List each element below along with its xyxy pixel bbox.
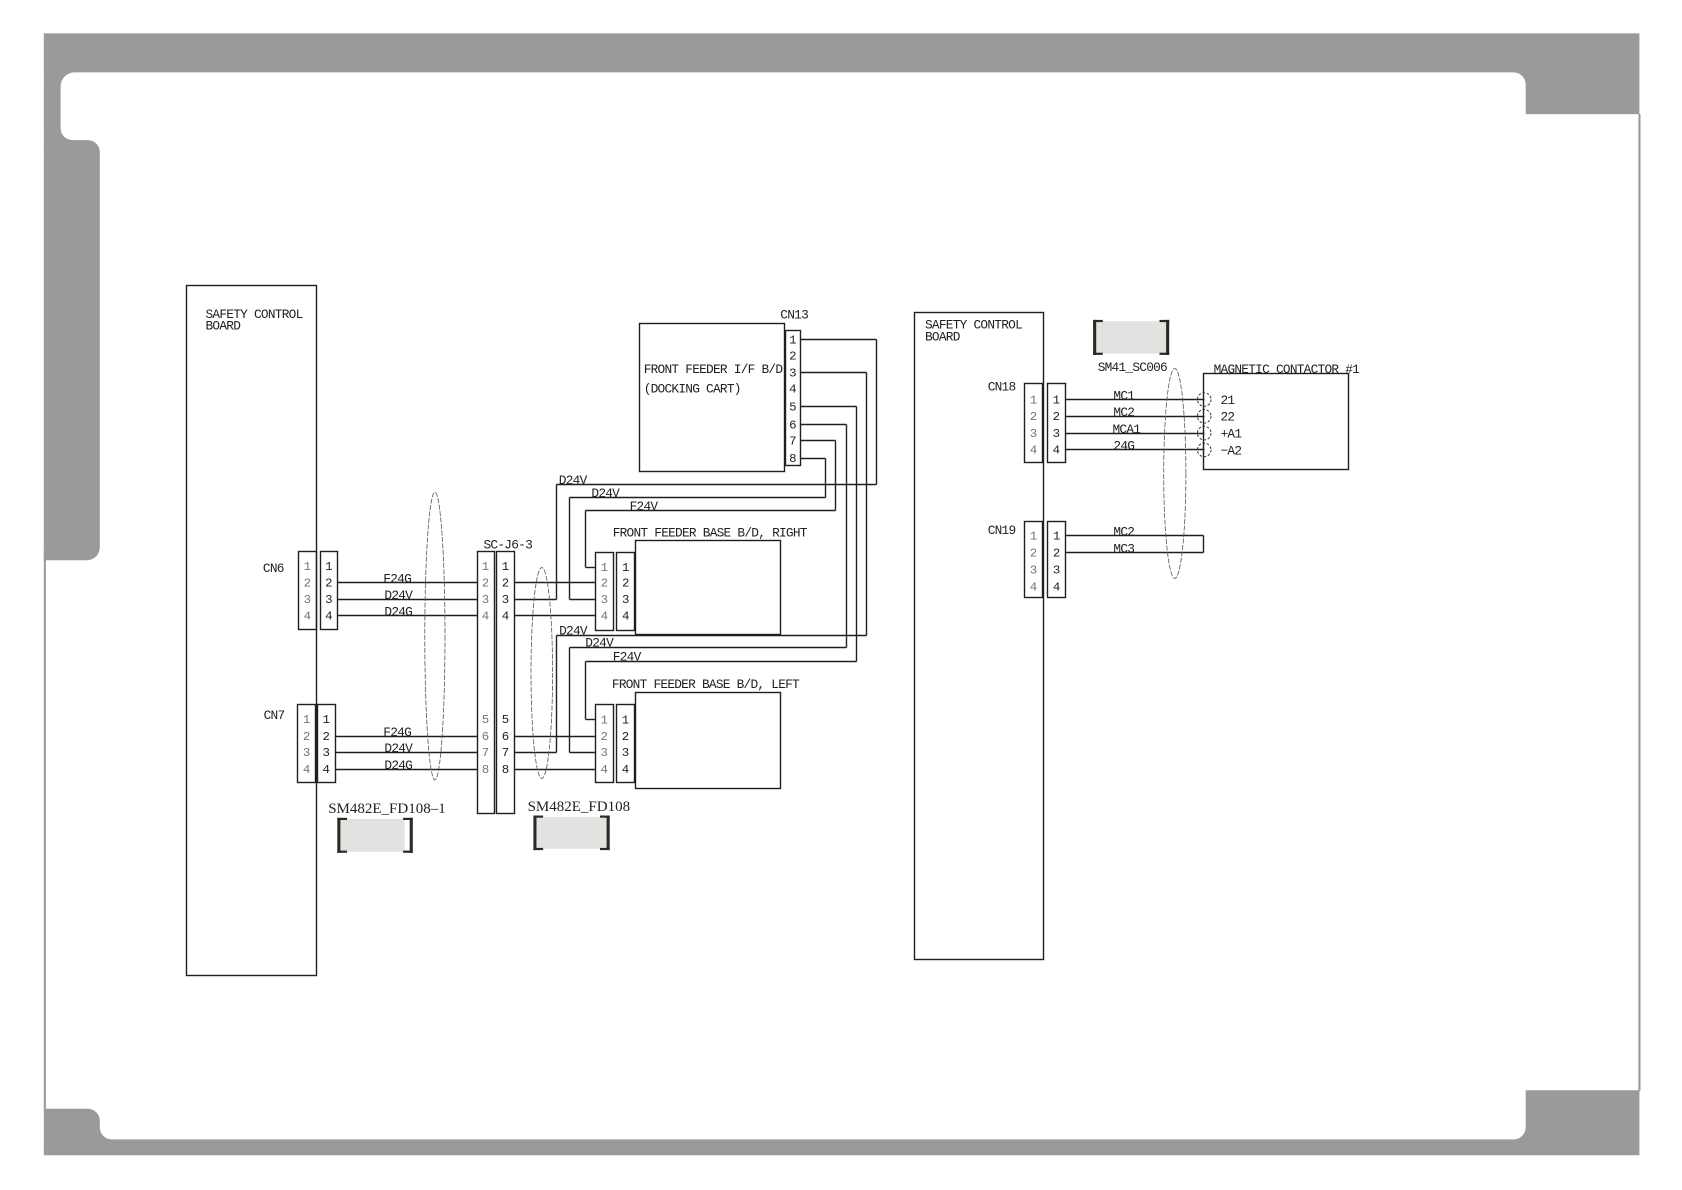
svg-text:SM41_SC006: SM41_SC006 [1098, 360, 1167, 375]
svg-text:MC3: MC3 [1113, 542, 1134, 557]
svg-text:3: 3 [622, 746, 629, 760]
svg-text:6: 6 [789, 419, 796, 433]
svg-text:4: 4 [482, 610, 489, 624]
svg-text:21: 21 [1221, 393, 1236, 408]
svg-text:CN18: CN18 [988, 379, 1016, 394]
svg-text:1: 1 [303, 713, 310, 727]
svg-text:MAGNETIC CONTACTOR #1: MAGNETIC CONTACTOR #1 [1214, 362, 1361, 377]
svg-text:1: 1 [789, 333, 796, 347]
svg-text:4: 4 [622, 610, 629, 624]
svg-text:2: 2 [789, 350, 796, 364]
svg-text:F24V: F24V [613, 649, 642, 664]
svg-text:8: 8 [482, 763, 489, 777]
svg-text:3: 3 [1030, 563, 1037, 577]
svg-text:3: 3 [601, 746, 608, 760]
svg-text:1: 1 [622, 714, 629, 728]
svg-text:4: 4 [323, 763, 330, 777]
svg-text:3: 3 [1053, 563, 1060, 577]
svg-text:1: 1 [325, 560, 332, 574]
svg-text:2: 2 [303, 730, 310, 744]
svg-text:3: 3 [1030, 427, 1037, 441]
svg-text:D24V: D24V [585, 636, 614, 651]
svg-text:8: 8 [789, 452, 796, 466]
svg-text:1: 1 [1030, 393, 1037, 407]
svg-text:2: 2 [1053, 410, 1060, 424]
svg-text:4: 4 [325, 610, 332, 624]
svg-text:3: 3 [482, 593, 489, 607]
svg-text:1: 1 [601, 714, 608, 728]
svg-text:3: 3 [325, 593, 332, 607]
svg-text:6: 6 [502, 730, 509, 744]
svg-text:1: 1 [622, 561, 629, 575]
svg-text:2: 2 [601, 576, 608, 590]
svg-text:3: 3 [304, 593, 311, 607]
svg-text:7: 7 [789, 435, 796, 449]
svg-text:F24G: F24G [383, 571, 411, 586]
svg-text:3: 3 [789, 366, 796, 380]
svg-text:22: 22 [1221, 410, 1235, 425]
svg-text:2: 2 [622, 576, 629, 590]
svg-text:3: 3 [323, 746, 330, 760]
svg-text:1: 1 [502, 560, 509, 574]
svg-text:2: 2 [1030, 410, 1037, 424]
svg-text:BOARD: BOARD [206, 318, 242, 333]
svg-text:4: 4 [1030, 580, 1037, 594]
svg-text:CN7: CN7 [264, 708, 285, 723]
svg-text:FRONT FEEDER BASE B/D, LEFT: FRONT FEEDER BASE B/D, LEFT [612, 677, 800, 692]
svg-text:D24G: D24G [384, 758, 412, 773]
svg-text:4: 4 [502, 610, 509, 624]
svg-text:8: 8 [502, 763, 509, 777]
svg-text:1: 1 [1030, 530, 1037, 544]
svg-text:D24V: D24V [384, 588, 413, 603]
svg-text:3: 3 [502, 593, 509, 607]
svg-text:4: 4 [1030, 444, 1037, 458]
svg-text:1: 1 [482, 560, 489, 574]
svg-text:1: 1 [601, 561, 608, 575]
svg-text:4: 4 [601, 610, 608, 624]
svg-text:2: 2 [601, 730, 608, 744]
svg-text:BOARD: BOARD [925, 329, 961, 344]
svg-text:2: 2 [1053, 547, 1060, 561]
svg-text:FRONT FEEDER I/F B/D: FRONT FEEDER I/F B/D [644, 362, 784, 377]
svg-text:7: 7 [482, 746, 489, 760]
svg-text:D24V: D24V [591, 486, 620, 501]
svg-text:2: 2 [325, 576, 332, 590]
svg-text:D24G: D24G [384, 605, 412, 620]
svg-text:MC1: MC1 [1113, 388, 1135, 403]
svg-text:3: 3 [601, 593, 608, 607]
svg-text:SC-J6-3: SC-J6-3 [484, 538, 533, 553]
svg-text:D24V: D24V [559, 473, 588, 488]
svg-text:6: 6 [482, 730, 489, 744]
svg-text:D24V: D24V [559, 623, 588, 638]
svg-text:5: 5 [482, 713, 489, 727]
svg-text:CN6: CN6 [263, 561, 284, 576]
svg-text:F24V: F24V [630, 499, 659, 514]
svg-text:CN19: CN19 [988, 523, 1016, 538]
svg-text:SM482E_FD108–1: SM482E_FD108–1 [328, 801, 446, 817]
svg-text:CN13: CN13 [780, 308, 808, 323]
svg-text:2: 2 [502, 576, 509, 590]
svg-text:FRONT FEEDER BASE B/D, RIGHT: FRONT FEEDER BASE B/D, RIGHT [613, 526, 808, 541]
svg-text:3: 3 [1053, 427, 1060, 441]
svg-text:2: 2 [1030, 547, 1037, 561]
svg-text:MC2: MC2 [1113, 525, 1134, 540]
svg-text:5: 5 [789, 400, 796, 414]
svg-text:(DOCKING CART): (DOCKING CART) [644, 382, 741, 397]
svg-text:4: 4 [601, 763, 608, 777]
svg-text:24G: 24G [1113, 439, 1134, 454]
svg-text:1: 1 [304, 560, 311, 574]
svg-text:+A1: +A1 [1221, 427, 1243, 442]
svg-text:MC2: MC2 [1113, 405, 1134, 420]
svg-text:2: 2 [323, 730, 330, 744]
svg-text:4: 4 [304, 610, 311, 624]
svg-text:1: 1 [1053, 393, 1060, 407]
svg-text:5: 5 [502, 713, 509, 727]
svg-text:4: 4 [1053, 580, 1060, 594]
svg-text:SM482E_FD108: SM482E_FD108 [528, 799, 631, 815]
svg-text:1: 1 [323, 713, 330, 727]
svg-text:D24V: D24V [384, 741, 413, 756]
svg-text:MCA1: MCA1 [1113, 422, 1142, 437]
svg-text:7: 7 [502, 746, 509, 760]
svg-text:4: 4 [789, 383, 796, 397]
svg-text:3: 3 [622, 593, 629, 607]
svg-text:4: 4 [622, 763, 629, 777]
svg-text:2: 2 [482, 576, 489, 590]
svg-text:4: 4 [1053, 444, 1060, 458]
svg-text:2: 2 [304, 576, 311, 590]
svg-text:1: 1 [1053, 530, 1060, 544]
svg-text:3: 3 [303, 746, 310, 760]
svg-text:4: 4 [303, 763, 310, 777]
svg-text:−A2: −A2 [1221, 443, 1242, 458]
svg-text:F24G: F24G [383, 725, 411, 740]
svg-text:2: 2 [622, 730, 629, 744]
